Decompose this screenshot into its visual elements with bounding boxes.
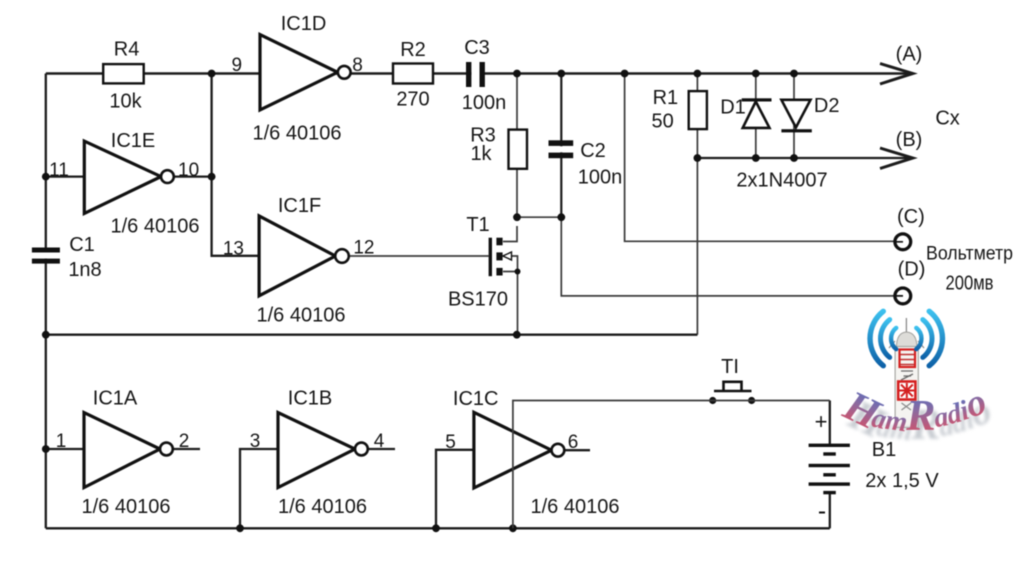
svg-text:50: 50 [651,111,673,133]
svg-text:1n8: 1n8 [68,259,101,281]
svg-text:C3: C3 [464,37,490,59]
svg-text:Cx: Cx [935,108,959,130]
svg-text:IC1D: IC1D [281,13,327,35]
svg-text:13: 13 [223,238,244,259]
svg-text:+: + [815,409,828,434]
svg-text:2: 2 [179,431,190,452]
svg-text:IC1C: IC1C [453,388,499,410]
svg-text:IC1B: IC1B [288,388,332,410]
svg-text:6: 6 [568,432,579,453]
svg-text:IC1A: IC1A [93,388,138,410]
svg-text:10k: 10k [109,90,142,112]
svg-text:12: 12 [353,237,374,258]
svg-text:10: 10 [178,160,199,181]
svg-text:(A): (A) [896,44,923,66]
svg-text:D1: D1 [720,97,746,119]
svg-text:R: R [905,391,936,440]
svg-text:100n: 100n [578,167,623,189]
svg-text:IC1F: IC1F [278,195,321,217]
svg-text:(B): (B) [896,129,923,151]
svg-text:(C): (C) [897,206,925,228]
svg-text:9: 9 [232,55,243,76]
svg-text:1/6 40106: 1/6 40106 [531,496,620,518]
svg-text:R4: R4 [114,38,140,60]
svg-text:4: 4 [374,431,385,452]
svg-text:C1: C1 [69,234,95,256]
svg-text:1/6 40106: 1/6 40106 [253,123,342,145]
svg-text:BS170: BS170 [448,288,508,310]
svg-text:1: 1 [56,431,67,452]
svg-text:5: 5 [445,432,456,453]
svg-text:R2: R2 [400,39,426,61]
svg-text:IC1E: IC1E [111,130,155,152]
svg-text:200мв: 200мв [946,273,994,295]
svg-text:(D): (D) [898,258,926,280]
svg-text:Вольтметр: Вольтметр [926,244,1013,265]
svg-text:2x 1,5 V: 2x 1,5 V [865,470,939,492]
svg-text:11: 11 [49,160,69,181]
svg-text:3: 3 [250,431,261,452]
svg-text:1/6 40106: 1/6 40106 [257,305,346,327]
svg-text:T1: T1 [466,214,489,236]
svg-text:100n: 100n [462,92,507,114]
svg-text:R1: R1 [653,87,679,109]
svg-text:270: 270 [396,89,429,111]
svg-text:1/6 40106: 1/6 40106 [278,496,367,518]
svg-text:TI: TI [721,356,739,378]
svg-text:2x1N4007: 2x1N4007 [736,170,827,192]
svg-text:D2: D2 [814,95,840,117]
svg-text:1k: 1k [470,143,492,165]
svg-text:8: 8 [352,55,363,76]
svg-text:1/6 40106: 1/6 40106 [111,216,200,238]
svg-text:1/6 40106: 1/6 40106 [82,496,171,518]
svg-text:C2: C2 [580,140,606,162]
